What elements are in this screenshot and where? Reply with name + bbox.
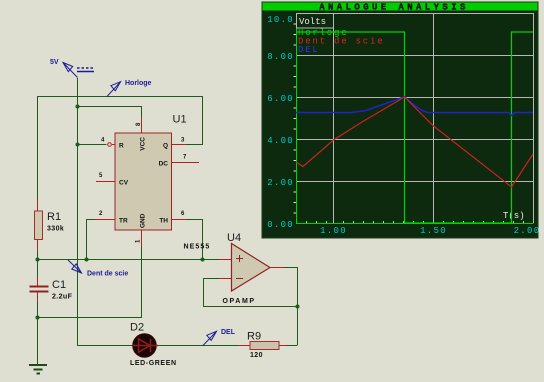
svg-text:8.00: 8.00 (267, 52, 294, 62)
wire: op-amp output down (284, 268, 298, 346)
pin 6 stub (172, 219, 187, 221)
wire: R9 right to output loop corner (286, 345, 298, 347)
svg-text:TH: TH (159, 218, 168, 225)
svg-text:Volts: Volts (299, 17, 326, 27)
x axis labels (320, 226, 540, 236)
svg-text:OPAMP: OPAMP (223, 298, 256, 305)
probe Horloge (107, 82, 121, 97)
svg-text:Dent de scie: Dent de scie (87, 271, 128, 278)
capacitor C1 (30, 276, 49, 302)
svg-text:4.00: 4.00 (267, 136, 294, 146)
svg-text:U4: U4 (227, 232, 241, 244)
svg-text:DC: DC (159, 161, 169, 168)
svg-text:5V: 5V (50, 59, 59, 66)
LED D2 (133, 334, 156, 357)
Volts label box (297, 14, 334, 29)
svg-text:GND: GND (140, 213, 147, 228)
wire: top feedback loop Q to R1 (37, 97, 203, 145)
wire: LED to R9 (156, 345, 240, 347)
grid horizontal 8.00 (296, 55, 534, 57)
svg-text:2.00: 2.00 (267, 178, 294, 188)
svg-text:2.2uF: 2.2uF (52, 294, 73, 301)
node: R1/C1 sawtooth junction (36, 258, 40, 262)
svg-text:TR: TR (119, 218, 128, 225)
grid horizontal 6.00 (296, 97, 534, 99)
y axis minor ticks (294, 24, 297, 213)
pin 1 stub (141, 230, 143, 246)
trace Dent de scie (red) (296, 97, 533, 187)
resistor R1 (37, 199, 39, 212)
graph window background (262, 2, 538, 238)
trace DEL (blue) (296, 97, 533, 116)
resistor R9 (239, 342, 287, 350)
x axis (296, 223, 534, 225)
y axis labels (267, 15, 294, 230)
power terminal 5V (63, 63, 94, 78)
node: TR junction (85, 258, 89, 262)
node: 5V/VCC junction (76, 105, 80, 109)
probe Dent de scie (68, 260, 82, 273)
svg-text:D2: D2 (130, 322, 144, 334)
grid vertical 1.50 (433, 13, 435, 223)
pin 2 stub (95, 219, 115, 221)
svg-text:6.00: 6.00 (267, 94, 294, 104)
svg-text:U1: U1 (173, 114, 187, 126)
svg-text:DEL: DEL (221, 329, 236, 336)
pin 5 stub (96, 181, 115, 183)
wire: left rail vertical (R1/C1 branch) (37, 97, 39, 202)
svg-text:2.00: 2.00 (514, 226, 541, 236)
svg-text:VCC: VCC (140, 137, 147, 151)
wire: TR pin 2 down to sawtooth node (87, 220, 96, 260)
svg-text:R1: R1 (47, 211, 61, 223)
wire: 5V rail down to LED row (78, 78, 134, 346)
svg-text:330k: 330k (47, 226, 64, 233)
pin 8 stub (141, 117, 143, 133)
wire: 5V to R pin 4 (78, 144, 107, 146)
ground (29, 365, 47, 374)
op-amp U4 (219, 260, 284, 279)
svg-text:10.0: 10.0 (267, 15, 294, 25)
graph title bar (263, 3, 538, 11)
pin 7 stub (172, 162, 200, 164)
wire: U1 GND pin 1 to ground rail (38, 246, 142, 318)
grid horizontal 2.00 (296, 181, 534, 183)
pin 3 stub (172, 144, 187, 146)
svg-text:T(s): T(s) (503, 211, 525, 221)
svg-text:CV: CV (119, 180, 129, 187)
svg-text:120: 120 (250, 352, 263, 359)
svg-text:1.50: 1.50 (420, 226, 447, 236)
wire: op-amp minus input feedback (204, 279, 298, 307)
svg-text:R: R (119, 143, 124, 150)
svg-text:Horloge: Horloge (125, 80, 152, 87)
svg-text:Q: Q (163, 143, 168, 150)
svg-text:0.00: 0.00 (267, 220, 294, 230)
plot top border (296, 13, 534, 15)
node: 5V/R-pin junction (76, 143, 80, 147)
svg-text:LED-GREEN: LED-GREEN (130, 360, 177, 367)
probe DEL (203, 331, 217, 345)
555 timer U1 (115, 133, 172, 230)
x axis minor ticks (307, 221, 524, 223)
grid vertical 1.00 (333, 13, 335, 223)
svg-text:DEL: DEL (298, 45, 320, 55)
node: C1/ground junction (36, 316, 40, 320)
wire: 5V to VCC pin 8 (78, 107, 142, 118)
svg-text:R9: R9 (247, 331, 261, 343)
wire: sawtooth node horizontal to op-amp (38, 259, 220, 261)
svg-text:1.00: 1.00 (320, 226, 347, 236)
wire: TH pin 6 to sawtooth node (186, 220, 203, 260)
y axis (296, 13, 298, 224)
trace Horloge (green square wave) (296, 32, 533, 223)
plot right border 2.00 (533, 13, 535, 223)
svg-text:NE555: NE555 (184, 244, 211, 251)
grid horizontal 4.00 (296, 139, 534, 141)
svg-text:ANALOGUE ANALYSIS: ANALOGUE ANALYSIS (319, 3, 469, 13)
node: TH junction (201, 258, 205, 262)
pin 4 stub + bubble (112, 144, 115, 146)
svg-text:C1: C1 (52, 279, 66, 291)
node: feedback/output junction (296, 305, 300, 309)
